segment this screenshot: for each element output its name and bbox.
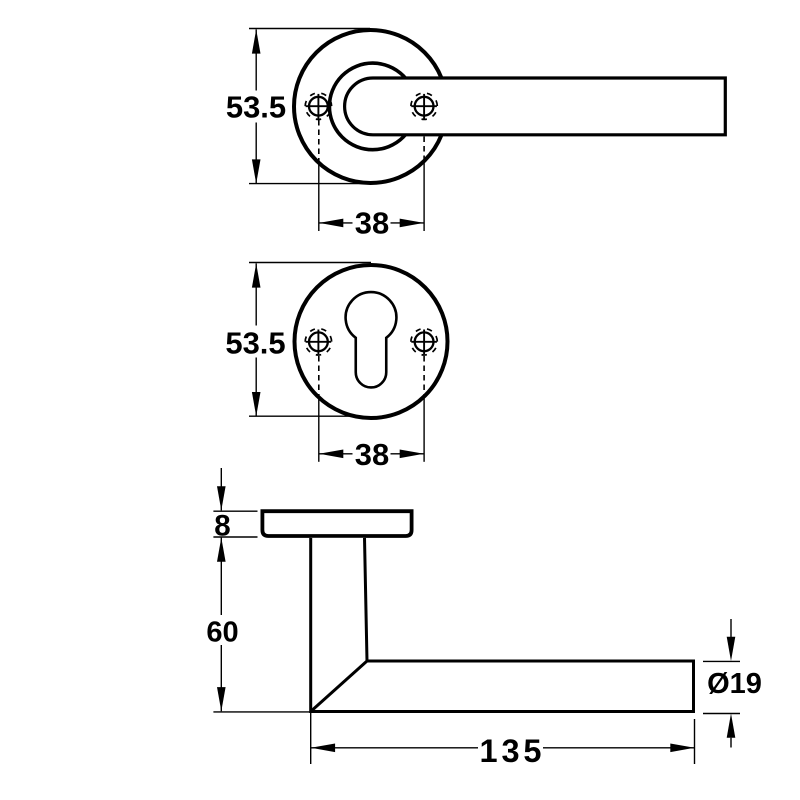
svg-text:53.5: 53.5 [226,90,286,125]
svg-text:38: 38 [355,437,389,472]
svg-text:60: 60 [206,616,238,648]
svg-text:38: 38 [355,206,389,241]
svg-text:Ø19: Ø19 [707,668,762,700]
svg-text:135: 135 [480,733,542,769]
svg-text:53.5: 53.5 [225,325,285,360]
